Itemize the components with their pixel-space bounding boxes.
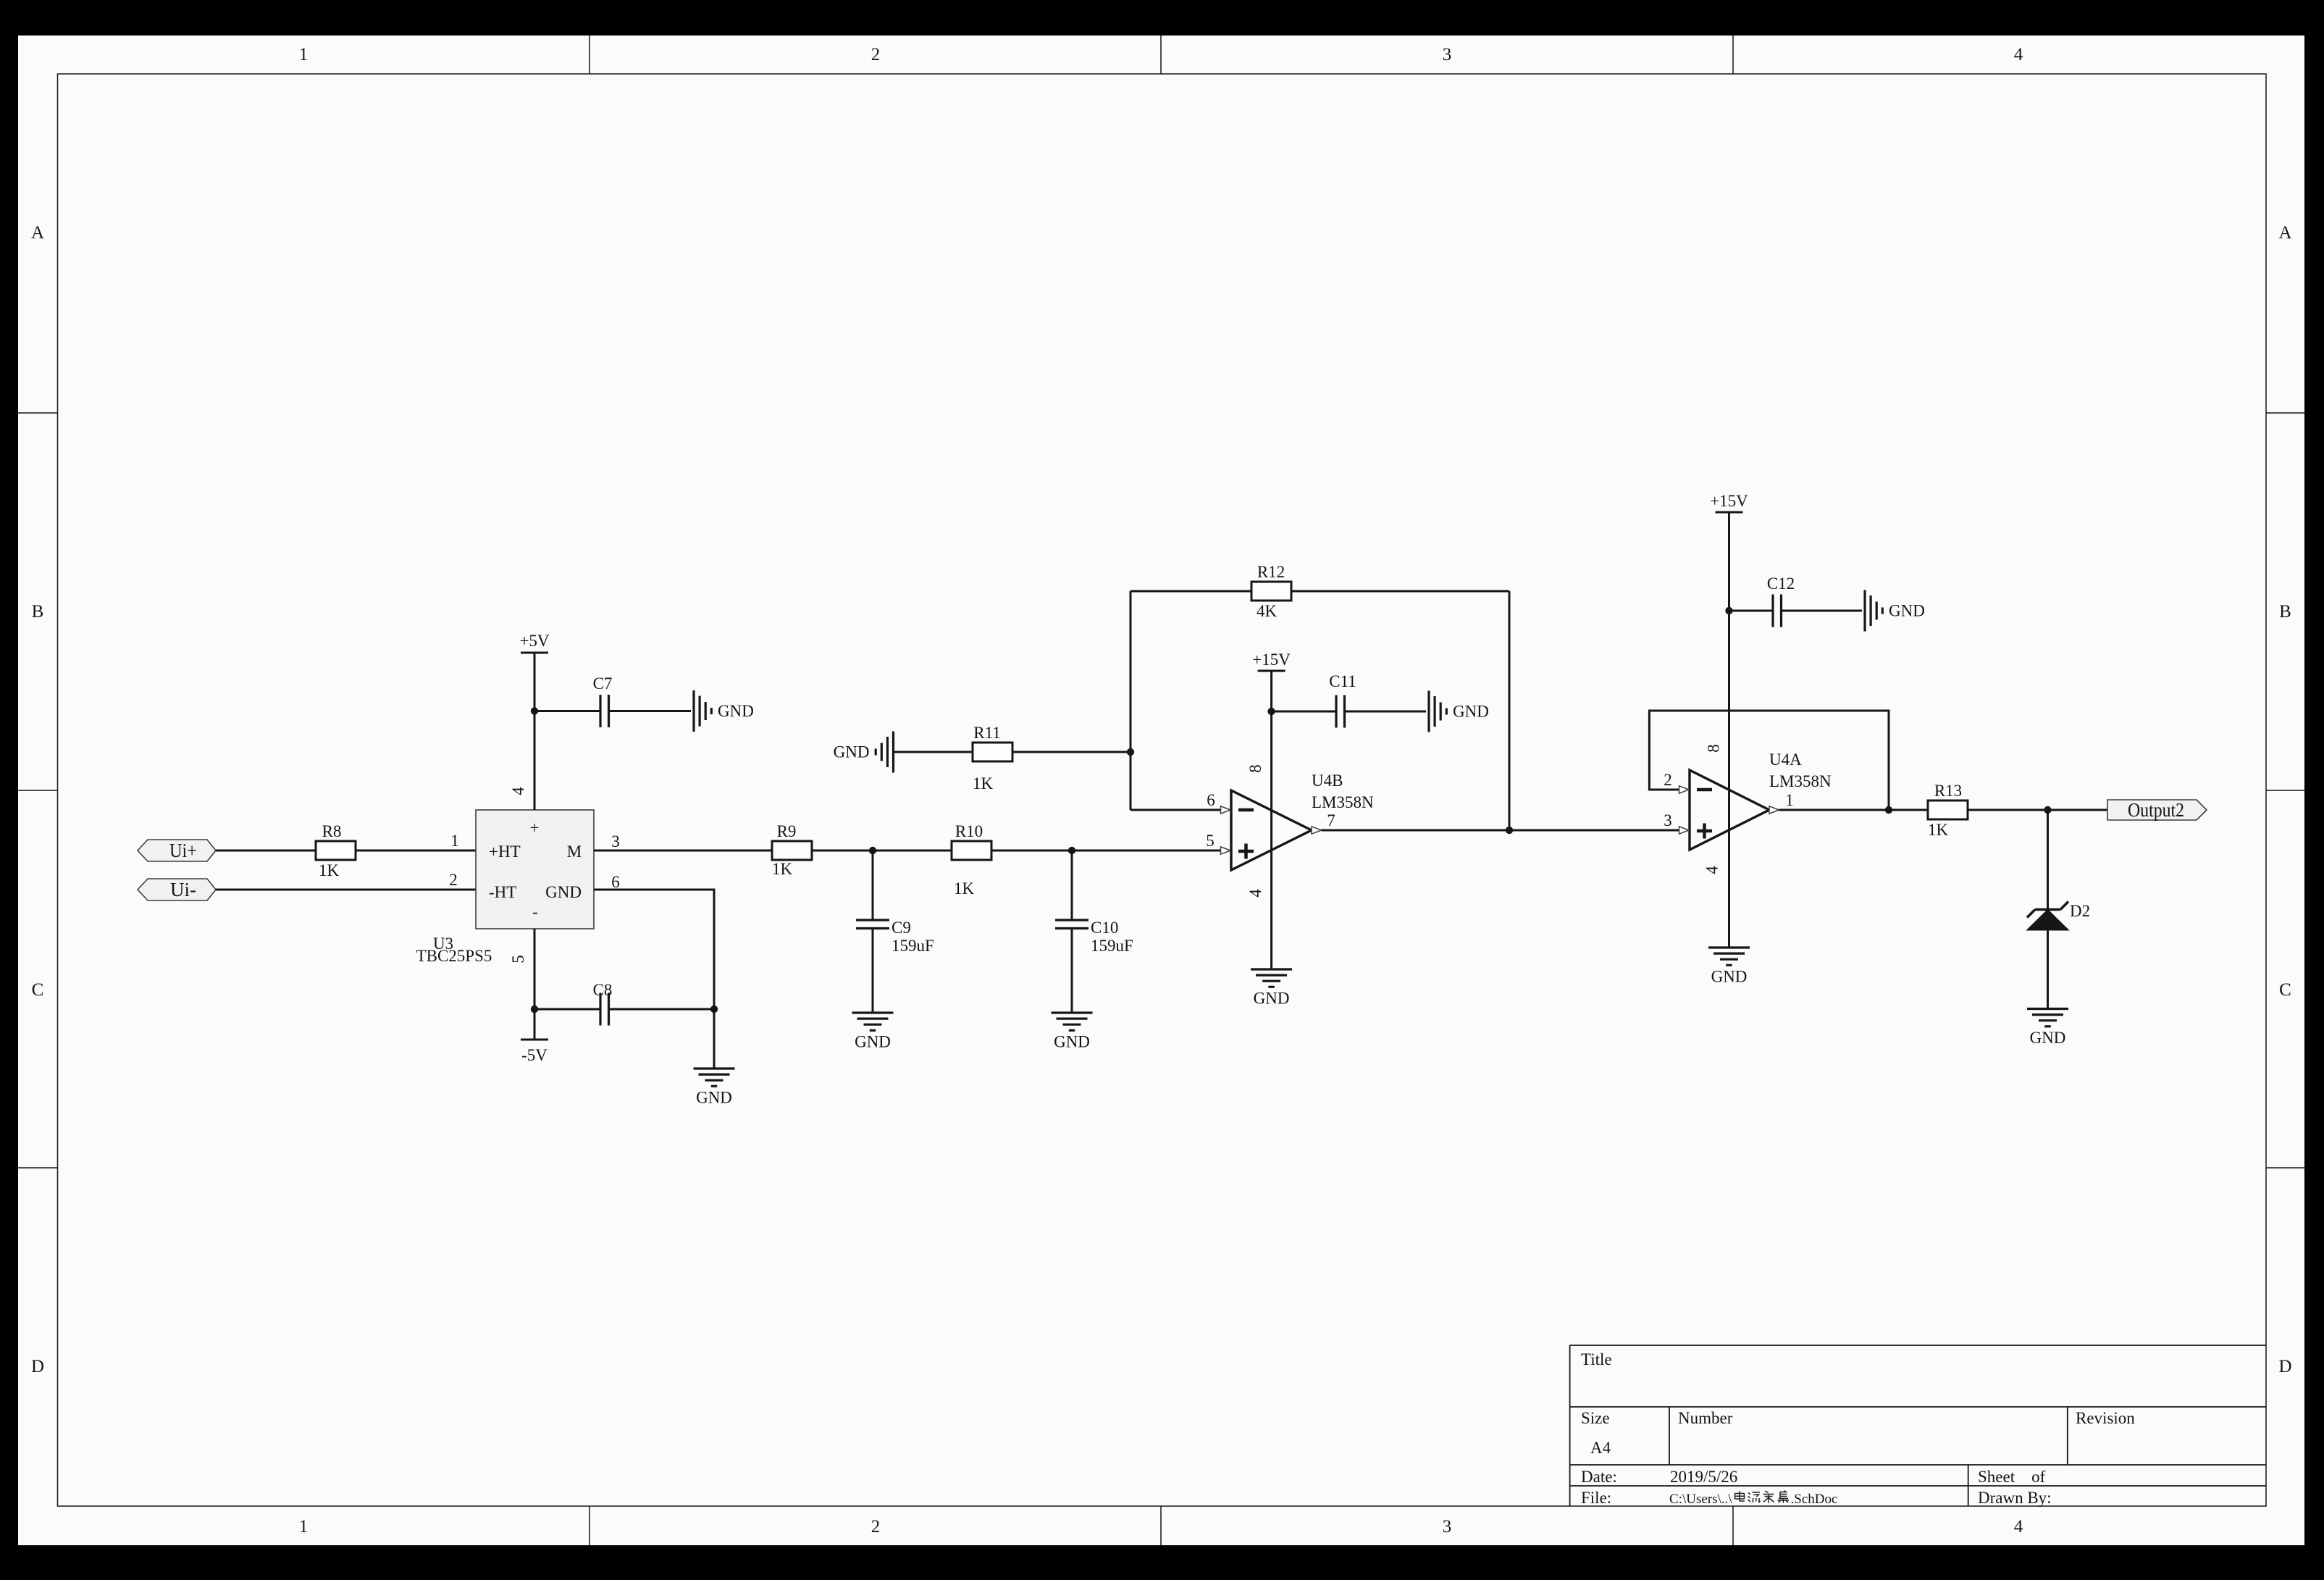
wire Ui- to U3 pin 2 — [216, 889, 476, 891]
svg-text:159uF: 159uF — [1091, 937, 1133, 955]
wire C9 bottom — [872, 929, 874, 1013]
svg-text:GND: GND — [855, 1033, 891, 1051]
wire pin8 to C11 — [1272, 711, 1336, 713]
svg-text:GND: GND — [696, 1089, 732, 1107]
svg-text:8: 8 — [1246, 764, 1264, 773]
zone tick top 1 — [589, 35, 590, 74]
wire U4A pin 2 feedback — [1649, 711, 1889, 810]
wire C8 to pin6 net — [609, 1008, 715, 1011]
wire C10 top — [1071, 850, 1073, 920]
wire U4A power pin 8/4 — [1728, 512, 1730, 948]
resistor R13 — [1928, 801, 1968, 819]
svg-text:C10: C10 — [1091, 919, 1118, 937]
resistor R10 — [952, 841, 991, 860]
svg-text:-5V: -5V — [521, 1046, 548, 1064]
svg-text:2: 2 — [871, 45, 881, 64]
wire R10 to U4B pin 5 — [991, 850, 1221, 852]
junction R11/R12 node — [1127, 748, 1134, 756]
svg-text:GND: GND — [545, 883, 582, 901]
zone tick left 1 — [18, 412, 58, 414]
ground GND below D2 (earth symbol) — [2027, 1009, 2068, 1027]
svg-text:Date:: Date: — [1581, 1468, 1617, 1486]
wire D2 anode wire — [2047, 930, 2049, 1009]
junction R12/output — [1506, 827, 1513, 834]
ground GND below C8 (earth symbol) — [694, 1069, 735, 1086]
wire node to U4B pin 6 — [1130, 809, 1221, 811]
title block file path CJK characters — [1735, 1491, 1790, 1503]
svg-text:Output2: Output2 — [2128, 799, 2184, 821]
title block frame — [1570, 1345, 2266, 1506]
svg-text:7: 7 — [1327, 811, 1335, 829]
capacitor C11 — [1336, 695, 1345, 728]
svg-text:C12: C12 — [1767, 574, 1795, 593]
wire C11 to GND — [1345, 711, 1427, 713]
zone tick left 3 — [18, 1167, 58, 1169]
capacitor C8 — [600, 993, 609, 1026]
capacitor C10 — [1055, 920, 1088, 929]
wire U3 pin 3 to R9 — [594, 850, 772, 852]
svg-text:+: + — [530, 819, 540, 837]
svg-text:C7: C7 — [593, 674, 613, 693]
svg-text:GND: GND — [1711, 968, 1748, 986]
wire GND to R11 — [894, 751, 973, 753]
wire R12 to U4B output — [1509, 591, 1511, 830]
svg-text:U4B: U4B — [1312, 772, 1343, 790]
junction pin8/C12 — [1725, 607, 1732, 614]
op-amp U4B — [1231, 790, 1312, 870]
svg-text:Size: Size — [1581, 1409, 1610, 1427]
svg-text:4: 4 — [2014, 45, 2023, 64]
svg-text:U4A: U4A — [1769, 751, 1802, 769]
power -5V rail — [521, 1039, 548, 1041]
svg-text:A: A — [31, 223, 44, 243]
ground GND below C9 (earth symbol) — [852, 1013, 894, 1030]
capacitor C12 — [1773, 595, 1782, 627]
ground GND at C12 (bar symbol) — [1865, 590, 1882, 632]
U4B minus sign — [1238, 808, 1254, 812]
svg-text:R10: R10 — [955, 822, 983, 840]
zone tick top 2 — [1160, 35, 1162, 74]
svg-text:Number: Number — [1678, 1409, 1733, 1427]
svg-text:-HT: -HT — [489, 883, 516, 901]
svg-text:3: 3 — [1443, 1517, 1452, 1537]
svg-text:R11: R11 — [973, 724, 1001, 742]
wire C12 to GND — [1782, 610, 1863, 612]
svg-text:6: 6 — [611, 873, 620, 891]
wire R12 right — [1291, 590, 1509, 593]
wire R8 to U3 pin 1 — [356, 850, 476, 852]
junction R10/C10 — [1068, 847, 1075, 854]
wire pin8 to C12 — [1729, 610, 1774, 612]
svg-text:R13: R13 — [1934, 782, 1962, 800]
svg-text:B: B — [32, 602, 44, 622]
wire pin4 to C7 — [534, 710, 600, 712]
wire U4A output to R13 — [1779, 809, 1929, 811]
svg-text:GND: GND — [834, 743, 870, 761]
svg-text:C:\Users\..\: C:\Users\..\ — [1669, 1492, 1732, 1507]
svg-text:4K: 4K — [1257, 602, 1278, 620]
svg-text:R12: R12 — [1257, 563, 1285, 581]
svg-text:GND: GND — [1453, 703, 1489, 721]
svg-text:Revision: Revision — [2076, 1409, 2135, 1427]
svg-text:4: 4 — [1703, 866, 1721, 874]
junction pin4/C7 — [531, 707, 538, 714]
U4A input pin indicators — [1679, 786, 1690, 834]
svg-text:1: 1 — [1785, 791, 1794, 809]
ground GND below U4B (earth symbol) — [1251, 969, 1292, 987]
svg-text:+15V: +15V — [1710, 492, 1748, 510]
svg-text:Sheet of: Sheet of — [1978, 1468, 2046, 1486]
U4B input pin indicators — [1221, 806, 1231, 854]
resistor R9 — [772, 841, 812, 860]
svg-text:-: - — [532, 903, 538, 921]
junction R13/D2 — [2044, 806, 2051, 814]
svg-text:8: 8 — [1705, 744, 1723, 753]
svg-text:C: C — [2279, 980, 2291, 1000]
svg-text:GND: GND — [1254, 990, 1290, 1008]
svg-text:1: 1 — [450, 832, 459, 850]
svg-text:4: 4 — [1246, 889, 1264, 898]
svg-text:R8: R8 — [322, 822, 342, 840]
wire R13 to Output2 — [1968, 809, 2107, 811]
junction feedback/output — [1885, 806, 1892, 814]
svg-text:File:: File: — [1581, 1489, 1611, 1507]
svg-text:2: 2 — [871, 1517, 881, 1537]
wire U3 pin 4 to +5V — [534, 653, 536, 810]
wire pin5 to C8 — [534, 1008, 600, 1011]
junction pin8/C11 — [1267, 708, 1275, 715]
svg-text:Ui-: Ui- — [170, 879, 196, 900]
svg-text:C8: C8 — [593, 981, 613, 999]
wire U4B power pin 8/4 — [1270, 671, 1272, 969]
U4A minus sign — [1697, 788, 1712, 792]
svg-text:1K: 1K — [319, 861, 340, 879]
wire C10 bottom — [1071, 929, 1073, 1013]
svg-text:D: D — [31, 1357, 44, 1376]
power +5V rail — [521, 652, 548, 654]
svg-text:6: 6 — [1207, 791, 1215, 809]
svg-text:2: 2 — [449, 871, 458, 889]
wire C7 to GND — [609, 710, 692, 712]
wire U3 pin 5 to -5V — [534, 929, 536, 1040]
svg-text:LM358N: LM358N — [1312, 793, 1374, 811]
svg-text:C11: C11 — [1329, 672, 1356, 690]
component U3 TBC25PS5 body — [476, 810, 594, 929]
junction R9/C9 — [869, 847, 876, 854]
ground GND below C10 (earth symbol) — [1052, 1013, 1093, 1030]
zone tick right 3 — [2266, 1167, 2304, 1169]
svg-text:3: 3 — [611, 832, 620, 850]
svg-text:1K: 1K — [1928, 821, 1949, 839]
port Ui- — [138, 879, 216, 900]
wire R11 to node — [1012, 751, 1130, 753]
svg-text:Ui+: Ui+ — [169, 840, 197, 861]
svg-text:5: 5 — [509, 955, 527, 964]
svg-text:+15V: +15V — [1252, 651, 1291, 669]
zone tick bottom 1 — [589, 1506, 590, 1545]
power +15V rail U4A — [1716, 511, 1743, 514]
zone tick right 2 — [2266, 790, 2304, 791]
zone tick left 2 — [18, 790, 58, 791]
svg-text:Drawn By:: Drawn By: — [1978, 1489, 2052, 1507]
svg-text:4: 4 — [509, 787, 527, 795]
U4A plus sign — [1697, 824, 1712, 839]
svg-text:4: 4 — [2014, 1517, 2023, 1537]
ground GND at C7 (bar symbol) — [694, 690, 711, 732]
zone tick bottom 3 — [1732, 1506, 1734, 1545]
svg-text:Title: Title — [1581, 1350, 1612, 1368]
wire R9 to R10 — [812, 850, 952, 852]
svg-text:C9: C9 — [892, 919, 911, 937]
svg-text:3: 3 — [1664, 811, 1672, 829]
svg-text:GND: GND — [718, 702, 754, 720]
svg-text:1K: 1K — [772, 860, 793, 878]
svg-text:GND: GND — [1889, 602, 1925, 620]
svg-text:+HT: +HT — [489, 843, 521, 861]
port Output2 — [2107, 800, 2207, 820]
zone tick bottom 2 — [1160, 1506, 1162, 1545]
svg-text:TBC25PS5: TBC25PS5 — [416, 947, 492, 965]
svg-text:D2: D2 — [2070, 902, 2090, 920]
wire C9 top — [872, 850, 874, 920]
wire node to R12 — [1130, 591, 1132, 810]
diode D2 (zener) — [2027, 902, 2069, 931]
svg-text:GND: GND — [1054, 1033, 1090, 1051]
ground GND at R11 (bar symbol) — [876, 732, 893, 773]
U4B output pin indicator — [1312, 827, 1322, 834]
svg-text:3: 3 — [1443, 45, 1452, 64]
U4A output pin indicator — [1769, 806, 1779, 814]
svg-text:B: B — [2279, 602, 2291, 622]
svg-text:R9: R9 — [777, 822, 797, 840]
wire U4B output to U4A pin 3 — [1322, 829, 1679, 832]
svg-text:LM358N: LM358N — [1769, 772, 1832, 790]
svg-text:.SchDoc: .SchDoc — [1791, 1492, 1838, 1507]
junction pin5/C8 — [531, 1006, 538, 1013]
ground GND below U4A (earth symbol) — [1708, 948, 1750, 965]
ground GND at C11 (bar symbol) — [1429, 691, 1446, 732]
zone tick top 3 — [1732, 35, 1734, 74]
svg-text:1K: 1K — [973, 774, 994, 793]
zone tick right 1 — [2266, 412, 2304, 414]
resistor R8 — [316, 841, 356, 860]
wire U3 pin 6 to ground — [594, 890, 714, 1069]
capacitor C9 — [856, 920, 889, 929]
wire Ui+ to R8 — [216, 850, 316, 852]
svg-text:A4: A4 — [1590, 1439, 1611, 1457]
op-amp U4A — [1690, 770, 1769, 850]
resistor R11 — [973, 743, 1012, 761]
svg-text:C: C — [32, 980, 44, 1000]
power +15V rail U4B — [1258, 670, 1285, 672]
capacitor C7 — [600, 695, 609, 727]
svg-text:2: 2 — [1664, 771, 1672, 789]
svg-text:5: 5 — [1206, 832, 1215, 850]
svg-text:A: A — [2278, 223, 2291, 243]
svg-text:+5V: +5V — [519, 632, 549, 650]
svg-text:1: 1 — [299, 1517, 309, 1537]
svg-text:2019/5/26: 2019/5/26 — [1670, 1468, 1737, 1486]
svg-text:GND: GND — [2030, 1029, 2066, 1047]
svg-text:D: D — [2278, 1357, 2291, 1376]
wire node to R12 left — [1130, 590, 1251, 593]
svg-text:1: 1 — [299, 45, 309, 64]
wire D2 cathode wire — [2047, 810, 2049, 910]
junction C8/pin6 — [710, 1006, 718, 1013]
U4B plus sign — [1238, 844, 1254, 859]
port Ui+ — [138, 840, 216, 861]
svg-text:M: M — [567, 843, 582, 861]
resistor R12 — [1251, 582, 1291, 601]
svg-text:1K: 1K — [954, 879, 975, 898]
svg-text:159uF: 159uF — [892, 937, 934, 955]
